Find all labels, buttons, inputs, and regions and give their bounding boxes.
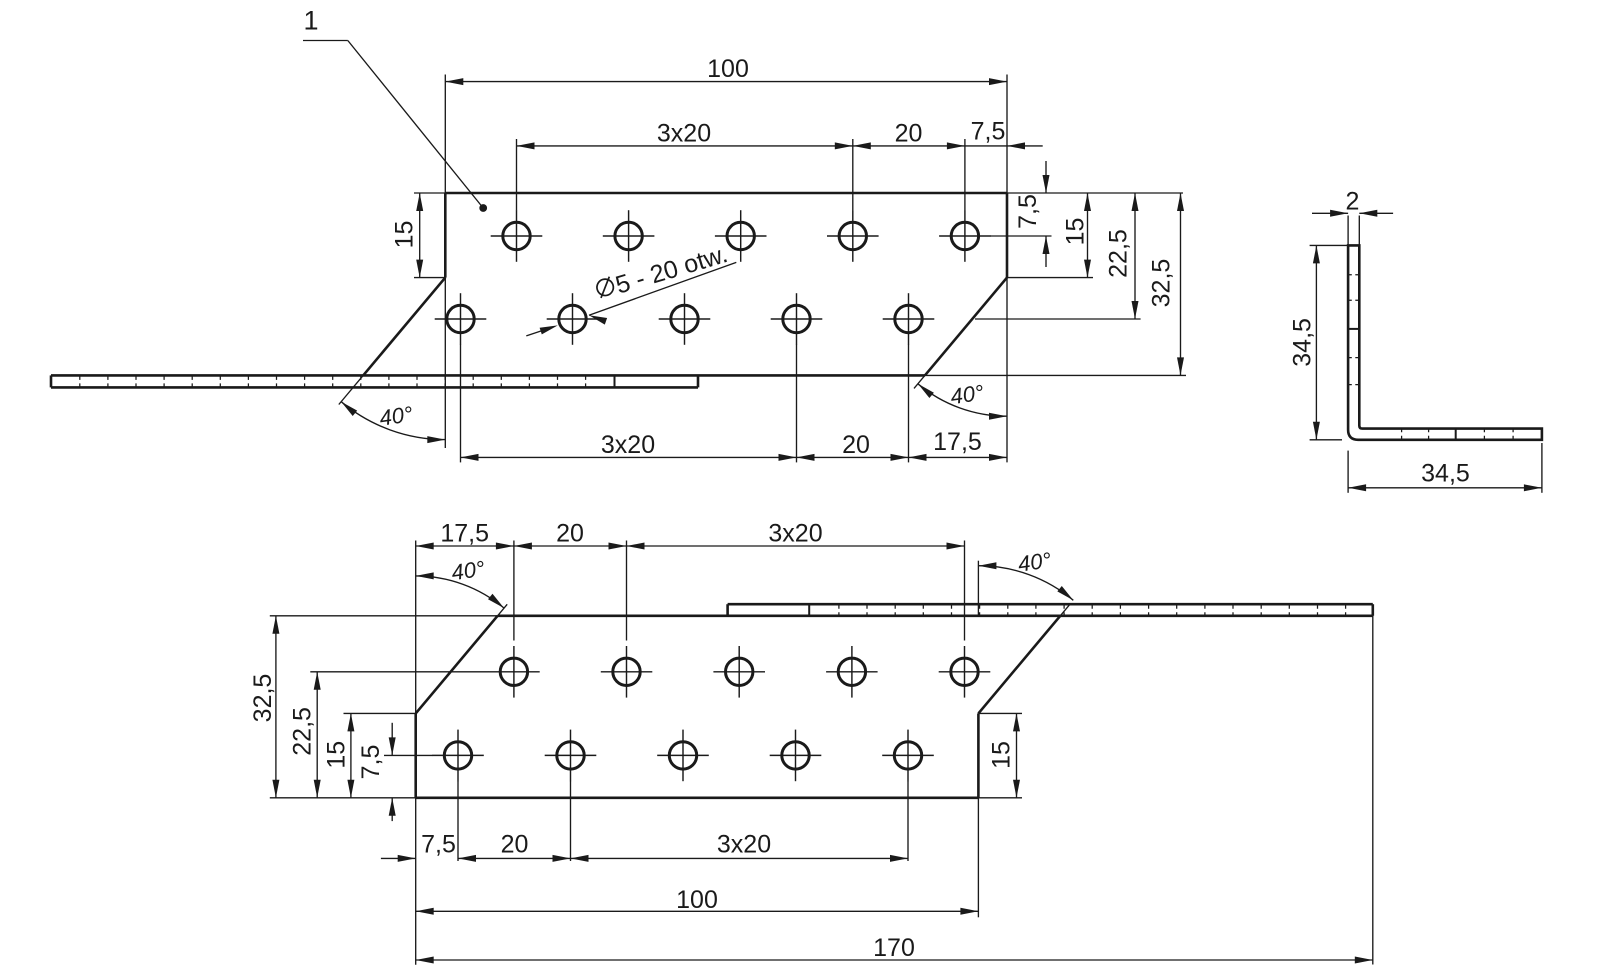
svg-text:1: 1 bbox=[303, 5, 318, 35]
top view: angle 40 deg left bbox=[341, 278, 445, 448]
top view: left cut extension line bbox=[339, 375, 363, 404]
side view: horizontal leg hole ticks bbox=[1402, 429, 1514, 440]
top view: dimension 17,5 bottom bbox=[909, 428, 1008, 461]
svg-text:17,5: 17,5 bbox=[440, 520, 489, 548]
top view: extension lines to hole row A bbox=[517, 139, 965, 210]
svg-text:100: 100 bbox=[707, 55, 749, 83]
bottom view: plate top edge / strip bottom edge bbox=[270, 615, 1373, 617]
top view: hole B2 (d5) bbox=[547, 293, 599, 345]
bottom view: dimension 20 top bbox=[514, 520, 627, 550]
top view: hole B3 (d5) bbox=[659, 293, 711, 345]
bottom view: dimension 7,5 left bbox=[270, 723, 433, 821]
svg-text:7,5: 7,5 bbox=[971, 118, 1006, 146]
svg-text:40°: 40° bbox=[450, 556, 487, 585]
bottom view: dimension 20 bottom bbox=[458, 831, 571, 862]
bottom view: hole C2 (d5) bbox=[601, 646, 653, 698]
top view: strip hole edge ticks bbox=[80, 376, 586, 387]
bottom view: dimension 32,5 left bbox=[249, 616, 279, 798]
svg-text:3x20: 3x20 bbox=[657, 120, 711, 148]
side view: vertical leg cut divider bbox=[1348, 328, 1359, 330]
top view: right cut extension line bbox=[914, 375, 925, 388]
bottom view: edge-on leg strip outline bbox=[728, 604, 1373, 616]
svg-text:32,5: 32,5 bbox=[249, 674, 277, 723]
bottom view: strip bend/cut divider bbox=[808, 604, 810, 616]
bottom view: angle 40 deg left bbox=[416, 556, 504, 608]
svg-text:32,5: 32,5 bbox=[1148, 259, 1176, 308]
top view: dimension 3x20 bottom bbox=[461, 431, 797, 461]
top view: hole B1 (d5) bbox=[435, 293, 487, 345]
bottom view: right cut extension line bbox=[1060, 604, 1070, 616]
svg-text:15: 15 bbox=[323, 741, 351, 769]
svg-text:3x20: 3x20 bbox=[601, 431, 655, 459]
bottom view: hole C3 (d5) bbox=[713, 646, 765, 698]
svg-text:20: 20 bbox=[842, 431, 870, 459]
bottom view: dimension 170 bbox=[416, 616, 1373, 965]
bottom view: hole D1 (d5) bbox=[432, 730, 484, 782]
side view: horizontal leg cut divider bbox=[1455, 429, 1457, 440]
bottom view: hole D5 (d5) bbox=[882, 730, 934, 782]
top view: hole A1 (d5) bbox=[491, 210, 543, 262]
bottom view: hole C5 (d5) bbox=[939, 646, 991, 698]
top view: hole B4 (d5) bbox=[771, 293, 823, 345]
bottom view: dimension 17,5 top bbox=[416, 520, 514, 550]
svg-text:40°: 40° bbox=[378, 401, 415, 430]
top view: dimension 3x20 top bbox=[517, 120, 853, 150]
side view: dimension 34,5 vertical bbox=[1289, 245, 1349, 439]
top view: dimension 7,5 top bbox=[965, 118, 1043, 150]
top view: angle 40 deg right bbox=[918, 278, 1007, 463]
bottom view: plate outline bbox=[416, 616, 1061, 798]
side view: dimension 34,5 horizontal bbox=[1348, 443, 1542, 493]
top view: extension lines to hole row B bbox=[461, 345, 909, 463]
top view: hole A4 (d5) bbox=[827, 210, 879, 262]
bottom view: extension lines to hole row C bbox=[416, 541, 965, 714]
svg-text:7,5: 7,5 bbox=[1014, 194, 1042, 229]
svg-text:40°: 40° bbox=[949, 380, 986, 409]
bottom view: hole C1 (d5) bbox=[488, 646, 540, 698]
bottom view: hole D2 (d5) bbox=[545, 730, 597, 782]
top view: item leader 1 bbox=[303, 5, 487, 212]
bottom view: strip hole edge ticks bbox=[839, 605, 1346, 615]
svg-text:170: 170 bbox=[873, 934, 915, 962]
top view: hole A3 (d5) bbox=[715, 210, 767, 262]
bottom view: hole C4 (d5) bbox=[826, 646, 878, 698]
top view: hole A5 (d5) bbox=[939, 210, 991, 262]
svg-text:17,5: 17,5 bbox=[933, 428, 982, 456]
svg-text:15: 15 bbox=[988, 741, 1016, 769]
svg-text:3x20: 3x20 bbox=[717, 831, 771, 859]
top view: dimension 22,5 right bbox=[975, 193, 1141, 319]
bottom view: dimension 100 bbox=[416, 798, 979, 965]
top view: edge-on leg strip outline bbox=[51, 375, 698, 387]
bottom view: angle 40 deg right bbox=[978, 547, 1073, 616]
top view: plate outline (100x32.5 face) bbox=[363, 193, 1007, 375]
bottom view: dimension 22,5 left bbox=[288, 672, 488, 798]
top view: hole callout d5 - 20 otw. bbox=[526, 240, 736, 336]
svg-text:2: 2 bbox=[1346, 187, 1360, 215]
bottom view: hole D3 (d5) bbox=[657, 730, 709, 782]
svg-text:20: 20 bbox=[556, 520, 584, 548]
side view: dimension 2 thickness bbox=[1312, 187, 1393, 245]
svg-text:20: 20 bbox=[501, 831, 529, 859]
bottom view: dimension 15 left bbox=[323, 713, 416, 797]
svg-text:7,5: 7,5 bbox=[357, 745, 385, 780]
svg-text:34,5: 34,5 bbox=[1421, 460, 1470, 488]
side view: L-profile outline bbox=[1348, 245, 1542, 439]
top view: hole B5 (d5) bbox=[883, 293, 935, 345]
bottom view: extension lines to hole row D bbox=[458, 781, 908, 861]
svg-text:40°: 40° bbox=[1016, 547, 1053, 576]
top view: dimension 20 bottom bbox=[797, 431, 909, 461]
top view: dimension 20 top bbox=[853, 120, 965, 150]
svg-text:20: 20 bbox=[895, 120, 923, 148]
top view: strip bend/cut divider bbox=[614, 375, 616, 387]
svg-text:7,5: 7,5 bbox=[421, 831, 456, 859]
svg-text:100: 100 bbox=[676, 886, 718, 914]
bottom view: dimension 3x20 bottom bbox=[571, 831, 909, 862]
top view: plate bottom edge / strip top edge bbox=[51, 374, 1186, 377]
top view: hole A2 (d5) bbox=[603, 210, 655, 262]
svg-text:22,5: 22,5 bbox=[288, 707, 316, 756]
bottom view: hole D4 (d5) bbox=[770, 730, 822, 782]
bottom view: left cut extension line bbox=[498, 604, 508, 616]
svg-text:15: 15 bbox=[1062, 218, 1090, 246]
top view: dimension 32,5 right bbox=[1007, 193, 1184, 375]
bottom view: dimension 7,5 bottom bbox=[381, 831, 456, 862]
svg-text:3x20: 3x20 bbox=[768, 520, 822, 548]
bottom view: dimension 3x20 top bbox=[627, 520, 965, 550]
bottom view: dimension 15 right bbox=[978, 713, 1022, 797]
top view: dimension 15 left bbox=[391, 193, 446, 278]
top view: dimension 15 right bbox=[1007, 193, 1093, 278]
svg-text:34,5: 34,5 bbox=[1289, 318, 1317, 367]
svg-text:22,5: 22,5 bbox=[1105, 229, 1133, 278]
top view: dimension 7,5 right bbox=[990, 161, 1052, 267]
side view: vertical leg hole ticks bbox=[1348, 275, 1359, 385]
svg-text:15: 15 bbox=[391, 221, 419, 249]
top view: dimension 100 top bbox=[445, 55, 1007, 193]
